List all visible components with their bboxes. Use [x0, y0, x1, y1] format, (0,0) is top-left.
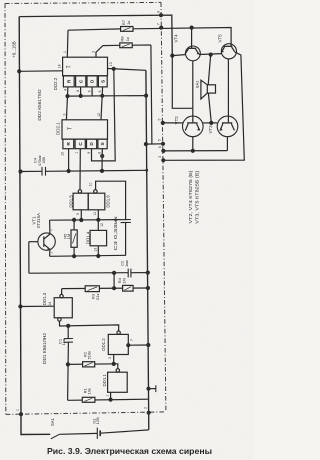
capacitor C2 [128, 269, 131, 278]
wire R8 row right [132, 44, 151, 46]
wire R5 bottom stub [73, 247, 75, 256]
wire C3 drop [125, 223, 127, 256]
capacitor C1 [64, 339, 73, 343]
label DD1.6 [106, 195, 111, 208]
node C2 row at V1 [146, 271, 149, 274]
node VT2 emitter on row [191, 149, 194, 152]
chip DD2.2 flip-flop [63, 57, 108, 87]
inverter DD1.6 [88, 193, 105, 210]
wire DD1.2 bottom pin [113, 355, 115, 364]
bubble DD1.3 top [60, 294, 63, 297]
resistor R2 [83, 362, 95, 367]
label R1 10k [82, 387, 91, 394]
node on pin13 wire [112, 67, 115, 70]
logic element DD1.3 [54, 298, 72, 318]
wire DD1.6 output drop to DD1.4 [97, 210, 99, 231]
wire base row from border [163, 122, 182, 124]
label R8 1k [120, 36, 130, 42]
wire VT4 emitter drop to VT2 [192, 61, 194, 123]
node base row on border [161, 121, 164, 124]
resistor R4 [123, 285, 134, 291]
wire VT1 collector riser [49, 220, 51, 233]
wire interchip column right [101, 87, 103, 120]
label R2 510k [82, 351, 91, 360]
wire VT3 emitter drop [226, 137, 228, 151]
wire row y96 [66, 95, 145, 98]
label 2 [144, 407, 148, 409]
wire emitter row [163, 150, 227, 152]
node DD1.2 output [127, 344, 130, 347]
label VT1 type [32, 213, 41, 228]
node row96 mid [79, 94, 82, 97]
label VT4 [174, 34, 179, 43]
wire R2 row [68, 363, 119, 366]
label SA1 [50, 417, 55, 426]
resistor R8 [120, 43, 132, 48]
label DD2.1 T and RCDS [66, 127, 106, 146]
resistor R5 [71, 230, 77, 247]
wire R8 row left [103, 44, 120, 46]
label R4 1M [117, 277, 126, 283]
node row96 at V1 [145, 94, 148, 97]
node C1 on lower rail [67, 324, 70, 327]
label pin 12 [100, 223, 104, 227]
label C3 value [113, 215, 119, 250]
label 5 [157, 139, 161, 141]
label VT3 [208, 125, 213, 134]
label VT2 [174, 116, 179, 125]
wire DD2.2 pin2 jog to R8 [96, 46, 103, 58]
node bridge left [144, 143, 147, 146]
label C2 1mk [119, 260, 129, 267]
label DD2.2 T and RCDS [67, 65, 107, 83]
label C1 1mk [58, 338, 67, 345]
wire VT1 emitter drop [49, 250, 51, 257]
wire DD2.2 pin1 riser [66, 30, 69, 57]
capacitor C4 [42, 167, 46, 176]
label VT5 [218, 34, 223, 43]
node C2 row branch [113, 271, 116, 274]
label VT2 VT4 types [188, 170, 201, 224]
dash-dot border frame [5, 2, 166, 414]
node VT4 collector junction [190, 26, 193, 29]
node R5 bottom [73, 255, 76, 258]
resistor R7 [121, 27, 133, 32]
logic element DD1.1 [108, 372, 128, 392]
wire R5 top stub [73, 220, 75, 230]
label C4 470mk 16V [33, 155, 46, 166]
wire R7 row left from DD2.2 pin1 [68, 29, 121, 30]
label 4 [158, 146, 162, 148]
wire DD1.1 bottom pin [110, 392, 112, 399]
wire VT2 emitter drop [192, 137, 194, 151]
node 3 on border [162, 159, 165, 162]
bubble DD1.5 input [78, 190, 81, 193]
wire VT5 right to lower row [163, 52, 244, 160]
wire switch to battery [59, 432, 97, 435]
battery G1 [97, 428, 100, 439]
label DD1.2 [101, 338, 134, 359]
wire C4 row [21, 170, 147, 171]
transistor VT4 [185, 46, 200, 61]
label pin 13 [93, 248, 97, 252]
node +9...15V supply label [12, 41, 17, 58]
wire base segment VT2 VT3 [203, 122, 217, 124]
labels DD2.1 bottom pins [61, 152, 102, 156]
label DD2.1 designator [56, 122, 61, 135]
wire DD2.2 pin14 from rail [19, 70, 62, 73]
wire left supply rail [19, 17, 50, 435]
wire R1 row [68, 399, 149, 400]
switch SA1 [51, 434, 60, 439]
wire battery to V1 bottom [100, 430, 149, 433]
node DD1.3 pin on rail [19, 305, 22, 308]
node DD1.6 out on rail [97, 218, 100, 221]
label DD2.2 designator [53, 64, 61, 90]
wire oscillator bottom rail [50, 254, 126, 257]
wire C1 to R2 row and R1 row column [67, 342, 70, 400]
node 2 on border [147, 411, 150, 414]
labels DD2.2 bottom pins [63, 89, 102, 93]
wire oscillator top rail [50, 219, 121, 222]
label 1 [15, 409, 19, 411]
wire R3 R4 row [62, 287, 148, 290]
label pin 13 [109, 62, 113, 66]
wire DD2.1 C pin drop to DD1.5 [79, 149, 81, 190]
label G1 12V [92, 417, 101, 424]
wire DD1.1 input riser [117, 364, 119, 369]
wire DD1.3 bubble riser [61, 289, 63, 295]
wire VT5 emitter drop to VT3 [227, 59, 229, 122]
node border crossing 7 [160, 26, 163, 29]
label pin 10 [89, 183, 93, 187]
label R3 51k [91, 293, 100, 300]
wire DD2.1 S pin drop [101, 149, 103, 171]
wire branch to R4 row [113, 273, 115, 288]
node VT4 base tee [171, 54, 174, 57]
node pin14 rail junction [18, 70, 21, 73]
wire V1 main vertical [146, 70, 149, 430]
node row96 left [66, 95, 69, 98]
node DD1.2 pin on R2 row [112, 362, 115, 365]
node row96 S column [101, 94, 104, 97]
wire DD1.5 output drop [80, 210, 82, 220]
label 3 [158, 156, 162, 158]
node C4 row on rail [19, 170, 22, 173]
wire C1 riser [67, 326, 69, 339]
bubble DD1.2 input [117, 331, 120, 334]
wire VT4 to VT5 base [199, 53, 221, 56]
transistor VT5 [221, 44, 236, 59]
wire DD1.2 output to V1 [128, 344, 148, 346]
bubble DD1.3 bottom [58, 318, 61, 321]
wire C2 row [29, 272, 148, 275]
node 5 on border [162, 142, 165, 145]
label pin 1 [63, 51, 67, 53]
wire DD1.4 output drop [97, 246, 99, 256]
label pin 2 [92, 51, 96, 53]
speaker BA1 [201, 80, 216, 99]
wire VT1 base [29, 241, 38, 243]
wire DD2.2 Q pin13 to V1 [108, 69, 146, 71]
node column on R2 row [66, 363, 69, 366]
label DD1.5 [69, 195, 74, 208]
transistor VT3 [217, 116, 238, 137]
bubble DD1.1 input [116, 369, 119, 372]
wire DD2.2 C pin drop [80, 87, 82, 96]
label 7 [157, 23, 161, 25]
labels DD2.1 top pins 3 and 12 [63, 113, 101, 117]
node DD1.4 out on rail [97, 255, 100, 258]
transistor VT2 [183, 116, 204, 137]
transistor VT1 [38, 233, 55, 250]
node BA1 tap [209, 53, 212, 56]
node 1 on border [20, 413, 23, 416]
wire DD2.1 D pin to DD2.2 Q [92, 69, 116, 161]
wire DD1.6 input jog to C3 [96, 181, 126, 219]
label DD2 type [37, 89, 43, 121]
node bases junction [210, 121, 213, 124]
label R5 1M [63, 233, 71, 240]
node R pin on C4 row [67, 170, 70, 173]
node 4 on border [162, 149, 165, 152]
wire V2 drop to node 5 [151, 45, 152, 144]
label pin 11 [93, 212, 97, 216]
wire VT1 base column [28, 242, 30, 274]
wire BA1 bottom to bases [208, 93, 211, 123]
label 6 [156, 11, 160, 13]
bubble DD1.6 input [94, 190, 97, 193]
wire DD2.1 R pin drop [68, 149, 70, 171]
wire VT4 base feed [172, 56, 192, 109]
wire top supply rail [19, 15, 172, 56]
node DD1.2 out at V1 [147, 344, 150, 347]
wire V1 stub terminal [149, 385, 156, 392]
resistor R1 [82, 397, 95, 402]
node R4 row at V1 [146, 287, 149, 290]
capacitor C3 [121, 220, 131, 223]
label VT1 electrode letters [50, 229, 54, 254]
node R5 top [73, 218, 76, 221]
wire VT4 base [172, 55, 185, 56]
label pin 9 [76, 213, 80, 215]
node branch on R4 row [113, 287, 116, 290]
wire DD1.3 out to lower rail [59, 321, 118, 331]
label DD1.4 [85, 231, 90, 244]
wire R7 row right to VT5 collector [133, 28, 231, 47]
logic element DD1.4 [90, 230, 107, 245]
label DD1 type [42, 333, 48, 364]
label R7 1k [121, 19, 131, 25]
wire DD1.3 supply pin from rail [20, 305, 54, 307]
wire VT4 collector riser [191, 28, 193, 49]
label BA1 [194, 81, 199, 88]
wire BA1 top [208, 55, 211, 85]
wire node5 bridge [146, 143, 163, 145]
label DD1.1 [102, 374, 109, 397]
inverter DD1.5 [73, 193, 88, 210]
label DD1.3 [42, 292, 52, 306]
node S pin on C4 row [101, 169, 104, 172]
resistor R3 [85, 286, 99, 292]
node DD1.1 pin on R1 row [109, 398, 112, 401]
node stub on V1 [147, 387, 150, 390]
label 5 at base row [157, 118, 161, 120]
node DD1.5 out on rail [80, 219, 83, 222]
node S pin mid circle [101, 155, 104, 158]
chip DD2.1 flip-flop [62, 120, 108, 149]
wire interchip column left [66, 87, 68, 120]
node border crossing 6 [160, 14, 163, 17]
logic element DD1.2 [108, 334, 128, 354]
wire DD2.2 D pin drop [91, 87, 93, 96]
